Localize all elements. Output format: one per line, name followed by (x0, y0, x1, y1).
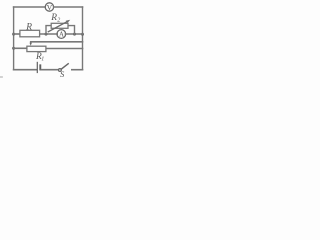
node row2-left (12, 33, 15, 36)
rheostat R2 (51, 23, 68, 28)
wire right rail (82, 7, 84, 70)
node rheostat tap right (73, 33, 76, 36)
svg-text:V: V (47, 3, 53, 12)
wire row3 left segment (14, 47, 27, 49)
node row3-left (12, 47, 15, 50)
svg-text:R: R (50, 13, 57, 23)
wire riser to R2 left (46, 26, 51, 34)
wire row2 middle segment (40, 33, 57, 35)
wire row2 left segment (14, 33, 20, 35)
switch S pivot (59, 69, 62, 72)
wire top-right (54, 6, 83, 8)
wire row3 right segment (46, 48, 82, 50)
wire top-left (14, 6, 45, 8)
wire left rail (13, 7, 15, 70)
svg-text:A: A (59, 32, 64, 39)
wire switch to corner (72, 69, 83, 71)
svg-text:R: R (25, 22, 32, 32)
svg-text:1: 1 (41, 56, 44, 62)
node row2-right (81, 33, 84, 36)
resistor R (20, 30, 40, 37)
node rheostat tap left (45, 33, 48, 36)
rheostat R2 arrow (48, 21, 68, 32)
svg-text:2: 2 (57, 17, 60, 23)
voltmeter V1 (45, 3, 53, 11)
svg-text:S: S (60, 69, 65, 79)
stray mark bottom-left (0, 76, 2, 78)
battery cell short plate (39, 65, 41, 69)
wire slider top (31, 41, 83, 43)
wire bottom-left (14, 69, 37, 71)
battery cell long plate (36, 62, 38, 72)
rheostat R1 (27, 46, 46, 51)
switch S lever (61, 64, 68, 69)
wire R2 right lead (68, 26, 74, 34)
wire battery to switch (41, 69, 58, 71)
wire row2 right segment (66, 33, 83, 35)
rheostat R1 slider arrow (30, 42, 32, 43)
ammeter A1 (57, 30, 66, 39)
